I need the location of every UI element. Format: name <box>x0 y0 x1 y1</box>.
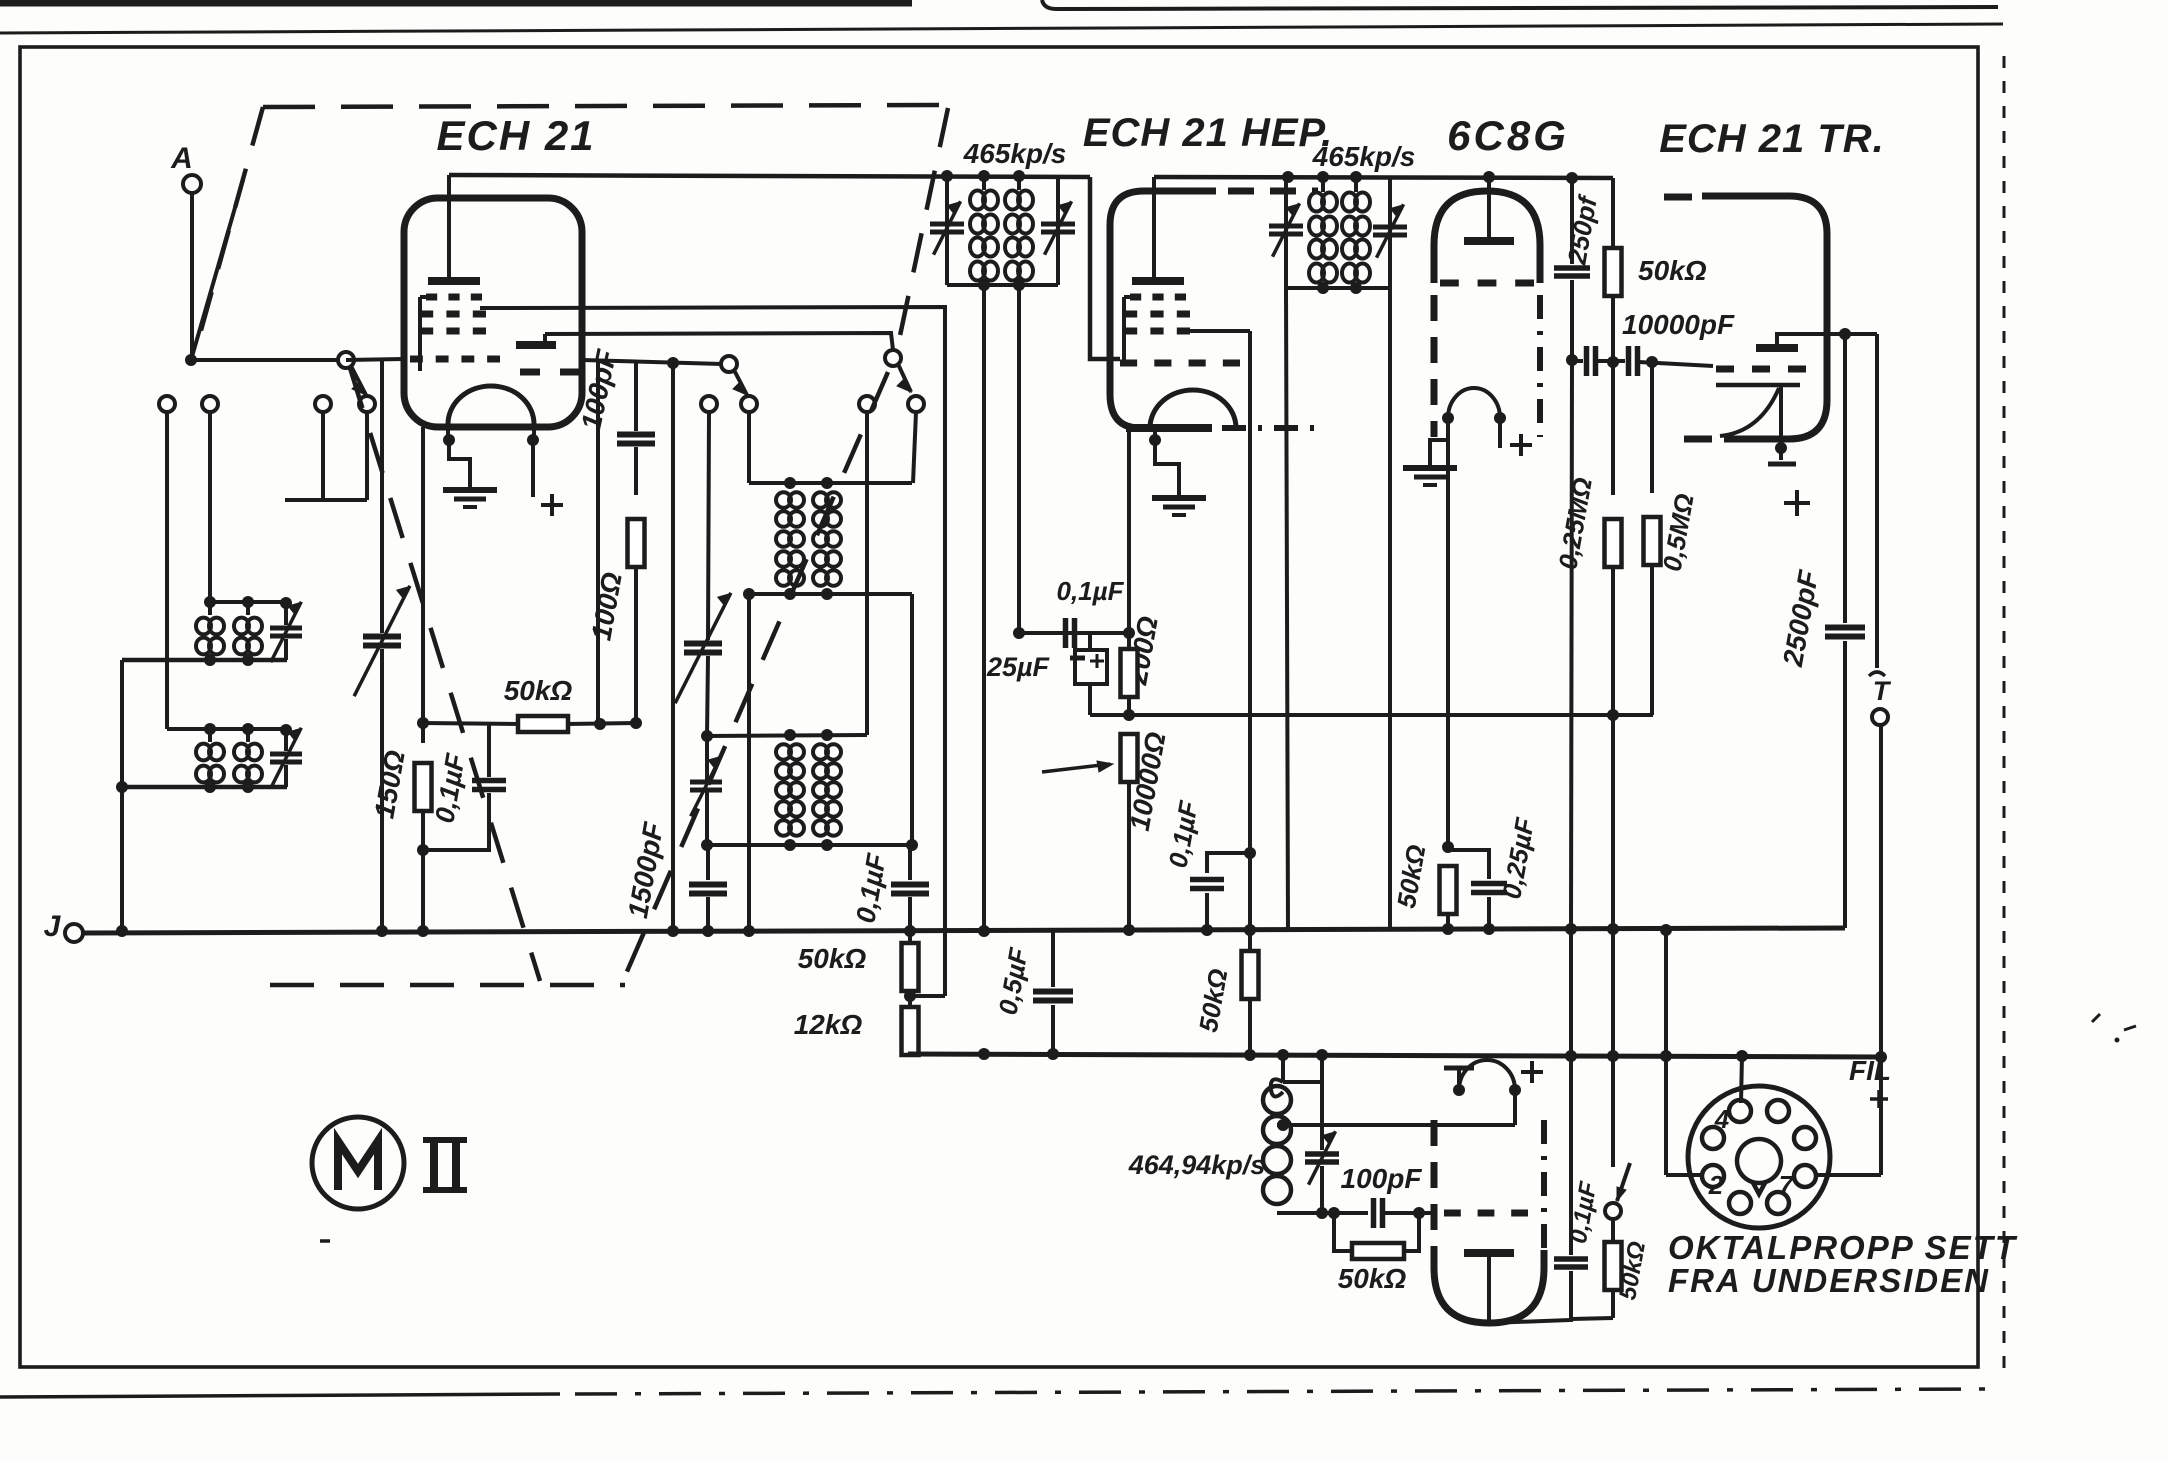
wire: detector line <box>1572 359 1583 363</box>
potentiometer arrow <box>1042 764 1110 772</box>
tuning capacitor CV1 plates <box>363 634 401 640</box>
V3 cathode arc <box>1720 388 1779 436</box>
wire: socket left lead <box>1664 931 1668 1175</box>
wire: T feeder <box>1875 334 1879 668</box>
svg-text:FRA UNDERSIDEN: FRA UNDERSIDEN <box>1668 1262 1990 1299</box>
BFO coil <box>1263 1086 1291 1114</box>
osc transformer T-osc2 coils <box>776 744 791 759</box>
octal socket center key <box>1737 1139 1781 1183</box>
resistor 50k (6C8G) body <box>1440 866 1457 914</box>
wire: V2 screen feeder <box>1248 345 1252 853</box>
wire: 1500pF lower <box>706 897 710 931</box>
V2 heptode anode bar <box>1132 277 1184 285</box>
dashed band-switch unit: top edge <box>263 105 948 107</box>
svg-text:50kΩ: 50kΩ <box>1193 966 1234 1034</box>
wire: screen feeder to bus <box>1248 853 1252 931</box>
switch S1a arm to A <box>191 180 243 360</box>
wire: trimmer C2 lower leg <box>284 765 288 787</box>
IF1 left leg <box>945 176 949 285</box>
wire: S2a feeder down <box>671 363 675 931</box>
svg-text:12kΩ: 12kΩ <box>794 1009 863 1040</box>
wire: 0.25uF link <box>1448 850 1489 879</box>
osc trimmer C arrow <box>691 756 722 817</box>
wire: grid line S1b to V1 <box>346 359 404 360</box>
dashed band-switch unit: left diagonal <box>195 107 263 352</box>
tube V2 envelope left <box>1110 191 1216 428</box>
electrolytic 25uF body <box>1075 650 1107 684</box>
switch S2b pivot <box>885 350 901 366</box>
V1 heptode anode bar <box>428 277 480 285</box>
wire: 0.5M lower <box>1650 565 1654 715</box>
terminal T arrow mark <box>1869 672 1885 676</box>
BFO tube bottom dome <box>1434 1250 1544 1323</box>
wire: contact2 down <box>208 412 212 598</box>
frame: dash-dot rule below border <box>0 1394 560 1397</box>
wire: V3 cathode lead <box>1779 386 1783 460</box>
octal socket pins <box>1729 1100 1751 1122</box>
switch S1a pivot junction <box>185 354 197 366</box>
wire: BFO trimmer lower <box>1320 1166 1324 1213</box>
tuning capacitor CV1 arrow <box>354 586 410 696</box>
wire: contact3 down <box>321 412 325 500</box>
switch S1 contact 2 <box>202 396 218 412</box>
capacitor 0.5uF plates <box>1033 989 1073 995</box>
M II mark numeral II <box>430 1141 438 1189</box>
IF2 left leg <box>1284 177 1288 288</box>
V1 cathode legs <box>446 424 450 440</box>
wire: trimmer C2 upper leg <box>284 730 288 751</box>
wire: divider top <box>908 931 912 944</box>
wire: V1 cathode to ground step <box>449 440 470 482</box>
V3 cathode minus bar <box>1768 462 1796 467</box>
resistor 50k (BFO plate) body <box>1605 1242 1622 1290</box>
svg-text:150Ω: 150Ω <box>368 748 410 821</box>
IF1 trimmer left arrow <box>934 201 961 254</box>
wire: screen cap link <box>1207 853 1250 873</box>
wire: link contacts3-4 <box>285 498 367 502</box>
switch S2b arm <box>898 364 911 392</box>
osc padder CV2 arrow <box>675 593 731 703</box>
wire: BFO switch lower <box>1611 1219 1615 1241</box>
tube 6C8G left side dashes <box>1431 295 1438 437</box>
wire: 50k det lower <box>1611 296 1615 362</box>
plus: BFO grid return <box>1521 1070 1543 1074</box>
wire: IF2 left leg down <box>1286 288 1288 931</box>
V1 grid side connector <box>418 297 422 371</box>
wire: bias top rail <box>423 723 520 724</box>
wire: 200ohm legs <box>1127 633 1131 650</box>
resistor 50k (BFO grid) loop <box>1334 1213 1352 1251</box>
dashed band-switch unit: bottom edge <box>270 983 625 988</box>
V1 control grid dashes <box>410 356 423 363</box>
wire: IF bus corner down <box>1611 178 1615 249</box>
resistor 100ohm body <box>628 519 645 567</box>
osc transformer T-osc1 coils <box>776 492 791 508</box>
resistor 150ohm body <box>415 763 432 811</box>
wire: IF1 second leg down <box>1017 285 1021 633</box>
wire: trimmer C1 upper leg <box>284 603 288 625</box>
plus: V3 cathode <box>1784 501 1810 505</box>
V1 screen grid dashes row2 <box>420 311 433 318</box>
wire: IF1 avc leg down <box>982 285 986 931</box>
wire: 25uF legs <box>1088 633 1092 650</box>
switch S2a contact 1 <box>701 396 717 412</box>
tube V2 envelope top dashes <box>1228 188 1318 195</box>
wire: grid bus from S1a to S1b <box>191 358 346 362</box>
IF2 coils <box>1309 193 1324 212</box>
wire: T1 rail to J bus <box>120 660 124 931</box>
junction: bias network top <box>417 717 429 729</box>
wire: V1 cathode feeder <box>421 427 425 723</box>
svg-text:0,25µF: 0,25µF <box>1496 815 1540 902</box>
IF2 right leg <box>1388 177 1392 288</box>
V2 cathode dome <box>1150 390 1236 428</box>
wire: 10000ohm lower <box>1127 782 1131 930</box>
svg-text:0,1µF: 0,1µF <box>1056 576 1124 606</box>
wire: BFO switch feeder <box>1611 715 1615 1167</box>
switch S2a arm <box>734 370 747 395</box>
BFO grid return arc <box>1459 1060 1515 1090</box>
BFO tube left side dashes <box>1431 1120 1438 1250</box>
IF2 trimmer left plates <box>1269 224 1303 229</box>
plus: 6C8G cathode <box>1510 443 1532 447</box>
switch S1 contact 4 <box>359 396 375 412</box>
wire: BFO coil top link <box>1281 1053 1285 1082</box>
wire: 6C8G grid arc right leg <box>1498 418 1502 448</box>
switch S1 contact 3 <box>315 396 331 412</box>
antenna transformer T2 coils <box>196 744 211 761</box>
capacitor 0.1uF (BFO) plates <box>1554 1256 1588 1262</box>
wire: T1 coil hooks <box>208 602 212 615</box>
wire: contact to osc padder <box>708 412 709 640</box>
wire: 2500pF upper <box>1843 334 1847 623</box>
wire: 100pF out <box>1384 1211 1434 1215</box>
tube V3 cut dashes bottom <box>1684 436 1712 443</box>
wire: socket top pin lead <box>1741 1055 1742 1103</box>
border strip: bottom of upper box at top right <box>1042 0 1998 9</box>
antenna coil T2 top rail <box>167 727 286 731</box>
bus: J ground bus <box>83 928 1845 933</box>
svg-text:465kp/s: 465kp/s <box>1312 141 1416 172</box>
wire: BFO trimmer upper <box>1320 1053 1324 1150</box>
wire: 250pf branch to bus <box>1571 360 1572 931</box>
V1 screen grid dashes row3 <box>420 328 433 335</box>
V2 screen grid dashes row3 <box>1124 328 1137 335</box>
wire: contact1 down <box>165 412 169 729</box>
svg-text:4: 4 <box>1714 1104 1730 1134</box>
wire: 0.25uF lower <box>1487 897 1491 930</box>
tube V3 cut dashes top <box>1664 194 1692 201</box>
wire: osc trimmer legs <box>705 736 709 781</box>
V1 cathode junction dots <box>443 434 455 446</box>
wire: contact4 down <box>365 412 369 500</box>
plus: V1 heater <box>541 503 563 507</box>
BFO tube cathode lead <box>1487 1253 1491 1320</box>
antenna coil T1 top rail <box>210 600 286 604</box>
wire: osc 0.1uF legs <box>908 845 912 880</box>
wire: S2b contact1 to T-osc2 rail <box>865 412 869 735</box>
resistor 50k (BFO grid) body <box>1352 1243 1404 1259</box>
junction: V2 cathode <box>1149 434 1161 446</box>
capacitor 0.1uF (osc) plates <box>891 882 929 888</box>
wire: cathode bias rail <box>1090 713 1653 717</box>
wire: plain branch from grid line <box>596 360 600 725</box>
IF2 trimmer left arrow <box>1273 203 1300 256</box>
IF1 trimmer right arrow <box>1045 201 1072 254</box>
ground: 6C8G grid <box>1428 462 1432 468</box>
wire: V1 anode feed from IF bus <box>447 175 451 279</box>
V2 grid side connector <box>1122 297 1126 363</box>
wire: 150ohm upper <box>421 723 425 743</box>
capacitor 10000pF plates b <box>1626 346 1632 376</box>
resistor 0.5M body <box>1644 517 1661 565</box>
octal socket body <box>1688 1086 1830 1228</box>
wire: 0.25M feeder <box>1611 362 1615 495</box>
wire: padder to T-osc2 <box>707 656 708 736</box>
wire: BFO coil tap to triode <box>1277 1123 1515 1127</box>
BFO tube cathode bar <box>1464 1249 1514 1257</box>
switch S2a pivot <box>721 356 737 372</box>
junction: grid line to S2a <box>667 357 679 369</box>
wire: divider middle <box>908 990 912 1010</box>
wire: 0.5M feeder <box>1650 362 1654 493</box>
tube 6C8G base dashes <box>1440 280 1459 287</box>
wire: T2 bottom rail <box>122 785 287 790</box>
svg-text:J: J <box>44 910 62 943</box>
tube V1 envelope <box>404 198 582 427</box>
switch S2b contact 2 <box>908 396 924 412</box>
resistor 0.25M body <box>1605 519 1622 567</box>
switch S1 contact 1 <box>159 396 175 412</box>
resistor 50k screen body <box>1242 951 1259 999</box>
V2 screen grid dashes row2 <box>1124 311 1137 318</box>
svg-text:0,1µF: 0,1µF <box>1163 798 1204 870</box>
IF1 bottom rail <box>947 283 1058 287</box>
wire: 1500pF upper <box>706 845 710 880</box>
capacitor 1500pF plates <box>689 882 727 888</box>
svg-text:250pf: 250pf <box>1561 192 1603 267</box>
wire: 50k to bus <box>1446 914 1450 930</box>
resistor 50k grid-leak body <box>518 716 568 732</box>
ground: V1 cathode <box>468 482 472 490</box>
wire: coupling mid <box>1597 359 1625 363</box>
svg-text:465kp/s: 465kp/s <box>963 138 1067 169</box>
wire: T-osc1 left leg to J bus <box>747 594 751 931</box>
wire: V1 triode-anode line B to S2b <box>545 333 893 350</box>
wire: BFO tap link <box>1283 1080 1322 1084</box>
IF2 bottom rail <box>1286 286 1390 290</box>
svg-text:ECH 21 TR.: ECH 21 TR. <box>1659 117 1885 161</box>
V2 screen grid dashes row1 <box>1130 294 1141 301</box>
IF1 right leg <box>1056 177 1060 285</box>
osc padder CV2 plates <box>684 641 722 647</box>
svg-text:ECH 21 HEP.: ECH 21 HEP. <box>1083 111 1333 155</box>
wire: BFO bottom rail <box>1489 1271 1571 1323</box>
wire: trimmer C1 lower leg <box>284 639 288 660</box>
wire: 6C8G grid arc left leg <box>1430 418 1448 462</box>
V2 control grid dashes <box>1120 360 1137 367</box>
wire: T lead down <box>1879 725 1883 1175</box>
wire: T1 bottom rail <box>122 658 287 663</box>
wire: 6C8G cathode feeder <box>1446 418 1450 847</box>
IF1 trimmer right plates <box>1041 222 1075 227</box>
V3 triode anode bar <box>1756 344 1798 352</box>
6C8G grid return arc <box>1448 388 1500 418</box>
dashed band-switch unit: inner diagonal <box>350 368 540 981</box>
osc trimmer C plates <box>690 780 722 785</box>
wire: BFO 0.1uF feeder <box>1569 931 1573 1255</box>
IF1 coil top hooks <box>982 176 986 190</box>
capacitor 250pf plates <box>1554 265 1590 271</box>
capacitor 2500pF plates <box>1825 625 1865 631</box>
svg-text:50kΩ: 50kΩ <box>1391 842 1432 910</box>
svg-text:0,25MΩ: 0,25MΩ <box>1552 475 1598 571</box>
junction: IF1 top dots <box>941 170 953 182</box>
V3 triode grid dashes <box>1716 366 1734 373</box>
capacitor 100pF (BFO) plates <box>1371 1198 1377 1228</box>
IF2 trimmer right arrow <box>1377 204 1404 257</box>
wire: IF2 right leg down <box>1388 288 1392 931</box>
BFO grid return plus leg <box>1513 1090 1517 1108</box>
wire: bias cap branch <box>487 723 491 777</box>
wire: S2b contact2 to T-osc1 rail <box>913 412 916 483</box>
ground: V2 cathode <box>1177 490 1181 498</box>
wire: A lead down <box>190 193 194 355</box>
svg-text:A: A <box>170 142 193 175</box>
wire: socket right lead <box>1814 1173 1881 1177</box>
svg-text:50kΩ: 50kΩ <box>504 675 573 706</box>
capacitor 0.1uF (V2) plates <box>1063 618 1069 648</box>
wire: T2 coil hooks <box>208 729 212 742</box>
trimmer C1 plates <box>270 626 302 631</box>
tuning capacitor CV1 upper wire <box>380 359 384 633</box>
osc transformer T-osc2 top rail <box>707 735 867 736</box>
V1 screen grid dashes row1 <box>426 294 437 301</box>
svg-text:0,1µF: 0,1µF <box>429 750 471 825</box>
wire: 100pF to 100ohm <box>634 447 638 495</box>
wire: 0.5uF upper <box>1051 931 1055 987</box>
BFO trimmer plates <box>1305 1151 1339 1157</box>
dashed band-switch unit: right diagonal upper <box>897 108 948 350</box>
wire: bias cap to rail <box>423 793 489 850</box>
wire: contact2 to T-osc1 <box>747 412 751 483</box>
svg-text:464,94kp/s: 464,94kp/s <box>1128 1150 1266 1180</box>
resistor 10000ohm body <box>1121 734 1138 782</box>
capacitor 0.1uF (V1 bias) plates <box>472 778 506 784</box>
resistor 50k divider body <box>902 943 919 991</box>
junction: anode rail split <box>1839 328 1851 340</box>
resistor 50k (det) body <box>1605 248 1622 296</box>
trimmer C2 plates <box>270 752 302 757</box>
wire: BFO coil bottom rail <box>1277 1211 1368 1215</box>
plus: FIL <box>1870 1097 1888 1101</box>
wire: 6C8G anode feed <box>1487 177 1491 239</box>
tube 6C8G dome <box>1434 191 1540 283</box>
switch S2b contact 1 <box>859 396 875 412</box>
svg-text:50kΩ: 50kΩ <box>1638 255 1707 286</box>
V2 screen tap <box>1190 329 1250 333</box>
V2 cathode bar <box>1126 424 1212 432</box>
svg-text:0,1µF: 0,1µF <box>850 850 892 925</box>
svg-text:1500pF: 1500pF <box>622 819 669 920</box>
svg-text:0,5µF: 0,5µF <box>993 945 1034 1017</box>
capacitor 0.1uF (screen) plates <box>1190 877 1224 883</box>
V1 triode anode riser <box>543 334 547 345</box>
wire: V2 0.1uF rail <box>1019 631 1129 635</box>
switch S1b pivot <box>338 352 354 368</box>
svg-text:25µF: 25µF <box>986 652 1051 682</box>
svg-text:2: 2 <box>1708 1170 1724 1200</box>
terminal A <box>183 175 201 193</box>
wire: osc anode feeder down <box>910 594 914 845</box>
wire: IF bus V1 anode to T3 <box>449 175 1090 177</box>
svg-text:2500pF: 2500pF <box>1777 567 1825 669</box>
bus: filament/B bottom bus <box>908 1054 1881 1057</box>
wire: coupling out to V3 grid <box>1639 362 1713 366</box>
margin smudge marks <box>2092 1014 2100 1022</box>
tube 6C8G right side dash-dot <box>1537 295 1543 437</box>
frame: dashed vertical margin line at right <box>2003 56 2006 1368</box>
trimmer C1 arrow <box>271 602 302 663</box>
V1 cathode dome <box>448 386 534 424</box>
resistor 12k body <box>902 1007 919 1055</box>
junction: V3 cathode lead <box>1775 442 1787 454</box>
dashed band-switch unit: right diagonal lower <box>622 372 888 983</box>
wire: V2 cathode ground step <box>1155 428 1179 490</box>
tube V3 envelope <box>1702 196 1827 439</box>
wire: BFO 50k to rail <box>1611 1290 1615 1318</box>
wire: 50k to 100ohm junction <box>566 723 636 724</box>
border strip: top edge heavy line <box>0 0 912 7</box>
IF1 trimmer left plates <box>930 222 964 227</box>
IF1 coils <box>970 191 985 210</box>
wire: 100ohm branch lower <box>634 567 638 722</box>
svg-text:T: T <box>1873 676 1892 706</box>
IF2 coil top hooks <box>1321 177 1325 192</box>
terminal J <box>65 924 83 942</box>
svg-text:OKTALPROPP SETT: OKTALPROPP SETT <box>1668 1229 2018 1266</box>
wire: 0.25M lower <box>1611 567 1615 715</box>
wire: 0.5uF lower <box>1051 1005 1055 1053</box>
BFO switch arm <box>1617 1163 1630 1201</box>
V3 anode riser <box>1777 334 1877 348</box>
BFO trimmer arrow <box>1309 1131 1336 1184</box>
wire: 100pF branch upper <box>634 360 638 431</box>
V1 triode grid tap wire <box>480 306 500 310</box>
wire: V2 anode feed <box>1152 177 1156 279</box>
wire: V1 heater lead <box>531 440 535 497</box>
BFO tube grid dashes <box>1444 1210 1461 1217</box>
BFO tube right side dash-dot <box>1541 1120 1547 1250</box>
switch S2a contact 2 <box>741 396 757 412</box>
osc transformer T-osc2 bottom rail <box>707 843 912 847</box>
svg-text:FIL: FIL <box>1849 1055 1891 1086</box>
border strip: full-width rule <box>0 24 2003 33</box>
osc transformer T-osc1 top rail <box>749 481 912 485</box>
svg-text:6C8G: 6C8G <box>1447 112 1569 159</box>
svg-text:100pF: 100pF <box>1341 1163 1423 1194</box>
svg-text:7: 7 <box>1779 1170 1795 1200</box>
stray mark <box>320 1239 330 1243</box>
svg-text:0,5MΩ: 0,5MΩ <box>1657 491 1700 573</box>
6C8G anode bar <box>1464 237 1514 245</box>
trimmer C2 arrow <box>271 728 302 789</box>
BFO switch contact <box>1605 1203 1621 1219</box>
wire: 12k to bottom bus <box>908 1053 912 1054</box>
switch S1b arm <box>351 366 366 395</box>
tuning capacitor CV1 lower wire <box>380 649 384 931</box>
wire: V2 cathode rail down <box>1127 431 1131 633</box>
